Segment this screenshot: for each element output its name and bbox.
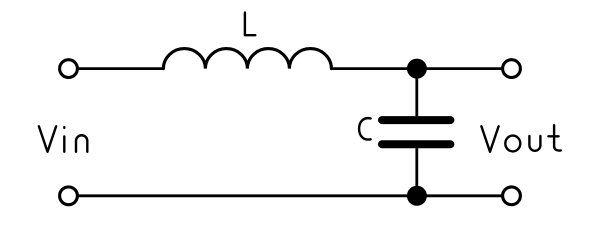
wire: inductor to top junction node — [331, 67, 417, 70]
wire: top junction to Vout top terminal — [417, 67, 512, 70]
terminal: Vout top (open circle) — [503, 60, 521, 78]
node junction top (filled dot) — [407, 59, 427, 79]
net label Vout — [481, 125, 560, 152]
wire: top junction down to capacitor top plate — [415, 69, 418, 117]
inductor L1 (4 semicircular humps) — [163, 49, 331, 69]
label C (value of capacitor) — [359, 118, 371, 139]
wire: bottom rail from Vin bottom terminal to Vout bottom terminal — [69, 194, 512, 197]
terminal: Vout bottom (open circle) — [503, 187, 521, 205]
capacitor C1 bottom plate — [382, 140, 450, 148]
wire: capacitor bottom plate down to bottom junction — [415, 148, 418, 196]
label L (value of inductor) — [245, 13, 255, 36]
wire: Vin top terminal to inductor — [69, 67, 164, 70]
capacitor C1 top plate — [382, 116, 450, 124]
node junction bottom (filled dot) — [407, 186, 427, 206]
terminal: Vin top (open circle) — [60, 60, 78, 78]
net label Vin — [39, 126, 87, 152]
terminal: Vin bottom (open circle) — [60, 187, 78, 205]
